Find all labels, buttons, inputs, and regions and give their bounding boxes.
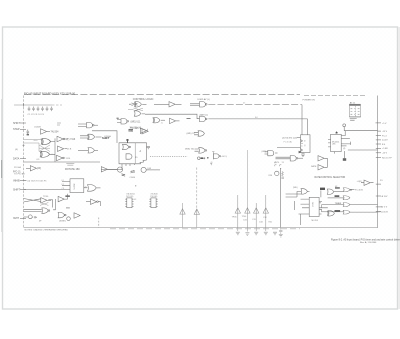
sheet left border [23, 96, 25, 228]
svg-text:DATA: DATA [13, 157, 20, 160]
svg-text:(4): (4) [15, 149, 18, 151]
svg-text:U140B: U140B [34, 127, 41, 129]
sheet right border [377, 96, 379, 228]
inverter U3A [57, 136, 65, 141]
crystal Y1 [343, 158, 346, 161]
svg-text:+5 BV: +5 BV [382, 148, 388, 150]
tick right of U5C [146, 129, 148, 131]
IC U23 body [309, 197, 319, 216]
svg-text:-B 15V: -B 15V [381, 196, 388, 198]
CENTER-LEFT GATES x85-146 y116-140 [78, 123, 102, 154]
TRANSISTOR CLUSTER x264-286 y161-182 [275, 165, 284, 228]
pin U22 bottom [334, 152, 336, 154]
test point TP2 [194, 209, 199, 214]
pin stub y123 [376, 122, 382, 124]
inverter U5C [140, 128, 146, 133]
xor gate U2B [40, 151, 50, 157]
CENTER IC U10 (shift register block) [92, 131, 188, 166]
IC U21 DIP [149, 198, 157, 208]
nor gate U10 internal A [123, 144, 131, 149]
pin dot U2B [52, 154, 53, 155]
wire U30A in/out [361, 182, 374, 184]
nor gate U18B [58, 212, 66, 217]
svg-text:(4) 74LS74 (1/2): (4) 74LS74 (1/2) [282, 137, 297, 139]
svg-text:45 B: 45 B [67, 149, 72, 151]
wire left entry y180 [20, 180, 26, 182]
xor gate U29A [327, 211, 334, 216]
pins U23 right [319, 202, 328, 214]
wire xor bank inputs [24, 140, 42, 152]
buffer U1A [41, 129, 47, 134]
wire gate U26 inputs [286, 192, 301, 211]
wire XMIT entry [24, 216, 29, 218]
TEST POINT COLUMN [180, 150, 283, 237]
long wire net XMIT to FF [208, 118, 307, 120]
left margin signal labels [13, 122, 21, 220]
capacitor C4 [41, 107, 44, 112]
pin U20 left D [297, 137, 301, 139]
capacitor C7 [27, 130, 30, 135]
or gate U6C [134, 111, 140, 116]
wire TP1 riser [182, 203, 184, 209]
wire crossed inputs U16A [24, 199, 41, 203]
junction dot Q6 [280, 168, 281, 169]
pin stub y207 [376, 206, 381, 208]
wire into U10 left [92, 131, 117, 143]
polarity blob C7 [27, 134, 29, 136]
wire U8A out [161, 119, 165, 121]
wire Q4 out [146, 169, 160, 171]
nand gate U7A [200, 102, 208, 107]
wire INHIBIT entry [24, 180, 28, 182]
wire U15A out [96, 187, 100, 189]
RP1 internal row 3 [351, 113, 360, 115]
IC U19 DIP [125, 198, 133, 208]
wire long y161 [24, 161, 101, 163]
wire U14 out [84, 187, 88, 189]
and gate U10 internal B [126, 154, 132, 159]
wire U10 to right dotted [150, 156, 188, 158]
capacitor C5 [46, 107, 49, 112]
svg-text:+5(R): +5(R) [357, 181, 363, 183]
wire U13A in [26, 167, 30, 169]
ground below TP6 [264, 232, 268, 235]
IC U10 body [119, 143, 147, 164]
test point TP4 [245, 208, 250, 213]
pin stub y135.5 [376, 135, 381, 137]
wire U20 left input [277, 146, 301, 148]
or gate U9B [199, 148, 207, 153]
xor gate U6A [134, 102, 141, 107]
resistor pack RP1 top band [349, 104, 360, 106]
svg-text:(+A/15): (+A/15) [220, 155, 227, 158]
wire TP5 lower [255, 213, 257, 231]
svg-text:RATE: RATE [311, 165, 317, 168]
svg-text:POWER ON: POWER ON [303, 99, 316, 101]
svg-text:P/O A4: P/O A4 [14, 166, 22, 169]
wire crossing under U16A [40, 203, 48, 206]
wire U6C crossed inputs [128, 108, 143, 111]
svg-text:(4) 74: (4) 74 [274, 162, 280, 164]
IC U22 body [331, 134, 342, 151]
wire U9A in [194, 132, 198, 135]
capacitor C3 [37, 107, 40, 112]
wire xor crossing [39, 145, 50, 152]
wire left entry y134 [20, 128, 26, 130]
sheet top title row [24, 94, 300, 96]
pin U10 right out [147, 146, 151, 148]
capacitor C31 [279, 228, 282, 234]
nand gate U5A [121, 119, 129, 124]
svg-text:(WS) 74L: (WS) 74L [185, 148, 195, 150]
svg-text:(SINE): (SINE) [59, 220, 66, 222]
wire TP3 riser [237, 195, 239, 208]
svg-text:P.L 45 B: P.L 45 B [355, 189, 363, 191]
buffer U25B [318, 165, 324, 170]
wire inputs U4A [78, 124, 87, 127]
connector arrow row [198, 152, 221, 166]
wire U24A in [276, 157, 291, 159]
svg-text:D1: D1 [62, 180, 64, 182]
SECOND ROW RIGHT GATES x150-208 [147, 118, 206, 154]
connector pad TP [57, 123, 61, 125]
dark bar row1 [335, 187, 340, 188]
or gate U4C [88, 148, 94, 153]
or gate U28A [343, 196, 350, 200]
RP1 center divider [354, 106, 356, 116]
svg-text:-15 V: -15 V [382, 131, 388, 133]
wire row2 [328, 197, 344, 199]
svg-text:AT 5 V: AT 5 V [381, 206, 388, 209]
svg-text:CR40: CR40 [130, 177, 136, 179]
IC U14 body [70, 179, 84, 193]
pin stub y157.6 [376, 157, 381, 159]
wire U27B out [351, 189, 355, 191]
svg-text:XMIT: XMIT [13, 217, 19, 220]
and gate U24A [290, 156, 298, 161]
resistor pack RP1 body [349, 104, 360, 117]
wire U24A out [298, 157, 304, 159]
RP1 internal row 2 [351, 111, 360, 113]
wire TP1 lower [182, 214, 184, 227]
nand gate U7B [200, 116, 208, 121]
resistor R5 marks [129, 130, 134, 132]
wire U16A out step [48, 200, 52, 208]
xor gate U8A [153, 118, 160, 123]
buffer U16A [41, 198, 47, 203]
svg-text:(WE): (WE) [293, 187, 298, 189]
small parts above U10 [129, 128, 147, 133]
svg-text:45: 45 [210, 162, 212, 164]
svg-text:C1 C2 C3 C4 C5: C1 C2 C3 C4 C5 [28, 114, 45, 116]
wire J2 down [343, 127, 345, 131]
ground below TP4 [245, 233, 249, 236]
pin marks inside U20 [301, 140, 303, 152]
inverter U5D [142, 129, 148, 134]
breaker component S1 [28, 215, 32, 219]
inverter U3C [57, 155, 65, 160]
buffer U17A [58, 196, 64, 201]
RP1 bottom rail [349, 117, 360, 120]
svg-text:(4): (4) [343, 148, 346, 150]
svg-text:(P.L) 45 B: (P.L) 45 B [379, 212, 389, 214]
svg-text:P/O A5 INPUT BOARD ASSY 672-11: P/O A5 INPUT BOARD ASSY 672-1108-00 [24, 92, 76, 96]
wire timer row input [322, 205, 344, 208]
wire left entry y191 [20, 189, 26, 191]
svg-text:CONTROL LOGIC: CONTROL LOGIC [133, 98, 154, 101]
wire U8B out [176, 120, 180, 122]
svg-text:RATE/CONTROL SELECTOR: RATE/CONTROL SELECTOR [315, 176, 346, 179]
DIP packages [125, 198, 157, 208]
wire U24B out [275, 152, 278, 154]
wire U6C out bend [142, 114, 200, 119]
svg-text:PL 45 (B): PL 45 (B) [284, 141, 293, 143]
component mark above rotate [66, 164, 74, 166]
wire SHIFT long entry [24, 189, 71, 191]
wire Q6 collector riser [280, 168, 282, 228]
pin stub y131 [378, 130, 382, 132]
or gate U27B [343, 188, 351, 192]
nor gate U16B [42, 208, 50, 213]
svg-text:4L: 4L [161, 123, 163, 125]
label TRIG dark box [320, 188, 325, 190]
svg-text:INHIB: INHIB [13, 180, 20, 183]
test point TP5 [254, 208, 259, 213]
pin stub y148 [376, 147, 381, 149]
transistor Q6 [275, 171, 279, 175]
svg-text:D2: D2 [62, 184, 64, 186]
wire right y150 [348, 149, 378, 151]
wire U12A out [108, 168, 117, 170]
connector circle J2 [343, 124, 346, 127]
svg-text:(T) 7416: (T) 7416 [67, 139, 76, 141]
svg-text:NOTES: UNLESS OTHERWISE SPECIF: NOTES: UNLESS OTHERWISE SPECIFIED [25, 230, 69, 232]
tick marks pair [275, 165, 282, 166]
LEFT GATE CLUSTER x24-80 y120-162 [22, 123, 100, 162]
wire U16A out [47, 199, 51, 201]
pin U10 top strobe [127, 139, 129, 143]
wire input U4C [78, 149, 88, 151]
resistor R22 [282, 172, 284, 177]
svg-text:Res 15 TP: Res 15 TP [382, 157, 392, 159]
buffer U13A top [30, 166, 36, 171]
page left edge shadow [0, 0, 1, 1]
buffer U6B [169, 102, 175, 107]
wire xor outputs to bus [50, 142, 55, 155]
wire inputs U4B [80, 136, 88, 138]
or gate U28B timer [343, 203, 350, 207]
pin stub y140 [376, 139, 381, 141]
ground below TP5 [254, 232, 258, 235]
wire U29B input [322, 210, 344, 212]
circle component K1 [67, 217, 71, 221]
svg-text:MC455: MC455 [312, 220, 319, 222]
capacitor C1 [28, 107, 31, 112]
wire TP6 lower [265, 213, 267, 231]
BOTTOM-CENTER ANALOG ROW y163-178 [101, 166, 160, 176]
svg-text:45: 45 [131, 171, 133, 173]
wire U22 xtal down [343, 151, 345, 158]
and gate U24B [268, 150, 274, 155]
pins U22 left [328, 140, 331, 147]
RP1 internal row 1 [351, 108, 360, 110]
svg-text:P4 U65: P4 U65 [150, 196, 158, 198]
wire U3B out [65, 148, 68, 150]
capacitor C20 [32, 216, 37, 218]
svg-text:U85: U85 [332, 144, 335, 146]
wire U29B out to border [350, 211, 378, 213]
wire bus vertical x55.5 [53, 199, 55, 210]
wire U7A inputs [190, 103, 200, 105]
pin U22 right 3 [341, 142, 350, 145]
or gate U27A [327, 189, 333, 194]
svg-text:(WE) 74: (WE) 74 [187, 133, 196, 135]
wire vertical bus A [54, 138, 56, 162]
wire U17B out [99, 202, 101, 206]
node bypass tap [23, 103, 25, 106]
dark bar above U17A out [65, 195, 70, 197]
wire left entry y158 [20, 158, 26, 160]
wire U3A out [65, 138, 68, 140]
wire TP4 lower [246, 213, 248, 231]
svg-text:TIMER: TIMER [335, 203, 342, 205]
transistor Q3 [117, 167, 122, 172]
wire U17A out up [65, 194, 68, 199]
test point TP1 [180, 209, 185, 214]
wire timer out to border [350, 204, 378, 206]
capacitor C2 [32, 107, 35, 112]
wire U6A out [142, 103, 146, 105]
wire xor U6A inputs crossing [129, 103, 138, 106]
test point TP3 [235, 208, 240, 213]
svg-text:DISPLAY (L): DISPLAY (L) [198, 98, 211, 101]
node dots [187, 118, 191, 120]
resistor R12 [122, 174, 126, 176]
buffer U12A [101, 167, 107, 172]
xor gate U4B [88, 134, 95, 139]
wire U6B out [175, 103, 181, 105]
svg-text:[4F]: [4F] [37, 168, 41, 170]
svg-text:STEP: STEP [13, 128, 20, 131]
test point TP6 [263, 208, 268, 213]
wire TP2 riser dashed [196, 168, 198, 210]
pins U23 left [299, 199, 310, 214]
node tick [117, 117, 119, 119]
svg-text:TP40: TP40 [43, 196, 49, 198]
ground below TP3 [236, 232, 240, 235]
buffer row above bottom-right [361, 180, 374, 185]
preset arrow mark U20 [299, 151, 302, 154]
divider inside U10 [134, 143, 136, 163]
pin stub y196 [376, 195, 381, 197]
BOTTOM RIGHT CLUSTER [286, 188, 378, 225]
wire U16B in [24, 209, 42, 211]
inverter U17B [91, 199, 99, 204]
svg-text:R40 4.7k: R40 4.7k [130, 127, 140, 129]
long wire net DISPLAY to FF [208, 104, 302, 106]
wire U4B out [96, 136, 102, 138]
svg-text:TO P/O A4: TO P/O A4 [14, 173, 25, 176]
wire dashed vertical x98.8 [98, 218, 100, 228]
pin stub y184 [376, 183, 381, 185]
dark label row4 [335, 210, 341, 212]
wire TP5 riser [255, 203, 257, 208]
svg-text:(4) 74LS TO U45 P5: (4) 74LS TO U45 P5 [28, 181, 48, 183]
or gate U29B [343, 210, 350, 214]
svg-text:(WE) U11: (WE) U11 [131, 121, 142, 123]
pin stub y144 [376, 143, 381, 145]
pin U22 right 4 [341, 145, 346, 147]
IC U20 body [301, 135, 311, 153]
wire U4C out [95, 149, 98, 151]
pin U22 right 2 [341, 137, 350, 139]
pin stub y153 [376, 152, 381, 154]
svg-text:45175: 45175 [73, 184, 75, 191]
dark label row2 [335, 195, 340, 197]
wire J2 to border [344, 130, 377, 132]
wire TP4 riser dashed [246, 150, 248, 208]
svg-text:74LS04: 74LS04 [51, 131, 60, 133]
node marks left of U20 [301, 144, 304, 147]
wire corner down into U20 D [307, 119, 309, 135]
svg-text:Rev. A, 1 B 0300: Rev. A, 1 B 0300 [360, 241, 377, 244]
wire corner down into U20 clk [301, 105, 303, 135]
wire left entry y218 [20, 217, 26, 219]
xor gate U2A [41, 139, 51, 145]
page right edge strip [398, 27, 400, 309]
wire TP6 riser [265, 195, 267, 208]
wire TRIG box to U23 [320, 190, 322, 197]
svg-text:-15 V: -15 V [382, 153, 388, 155]
buffer U8B [170, 118, 176, 123]
svg-text:(WS): (WS) [262, 151, 267, 153]
svg-text:Figure 8-2. A5 Input board, P: Figure 8-2. A5 Input board, P/O timer an… [331, 238, 400, 241]
wire TP2 lower [196, 214, 198, 227]
svg-text:(L) 4V: (L) 4V [382, 140, 388, 142]
ground C31b [279, 234, 283, 237]
sheet bottom border [24, 227, 379, 229]
wire U25 outs [324, 158, 327, 167]
transistor Q4 [141, 167, 146, 172]
svg-text:U150A: U150A [104, 135, 111, 138]
pin stub y211.3 [376, 210, 381, 212]
svg-text:SHIFT: SHIFT [13, 188, 21, 191]
notes dashes along bottom [110, 228, 300, 230]
capacitor C22 [281, 177, 284, 178]
ground U20 [301, 154, 305, 157]
RIGHT BORDER PIN STUBS AND LABELS [376, 123, 382, 211]
node tick above DIP1 [135, 185, 137, 187]
node tick border y145 [22, 144, 24, 146]
or gate U26A [301, 189, 307, 194]
wire U4A out [94, 124, 98, 126]
strobe dark mark U10 [126, 139, 128, 141]
wire U24B in [265, 152, 268, 154]
diode CR4 [131, 170, 135, 173]
wire U9B in [195, 149, 199, 151]
ground stub below U20 [302, 153, 304, 155]
svg-text:SHIFT: SHIFT [13, 122, 21, 125]
svg-text:U45: U45 [36, 159, 39, 161]
svg-text:TP45: TP45 [232, 217, 238, 219]
wire U17B in [86, 201, 91, 203]
buffer U25A [318, 156, 324, 161]
wire left entry y123 [20, 122, 26, 124]
svg-text:ROTATE 180: ROTATE 180 [65, 168, 80, 171]
wire U5A in [117, 120, 121, 123]
BOTTOM-LEFT GATES x28-100 y195-222 [24, 194, 101, 221]
dash mark right of U18B [66, 207, 70, 209]
